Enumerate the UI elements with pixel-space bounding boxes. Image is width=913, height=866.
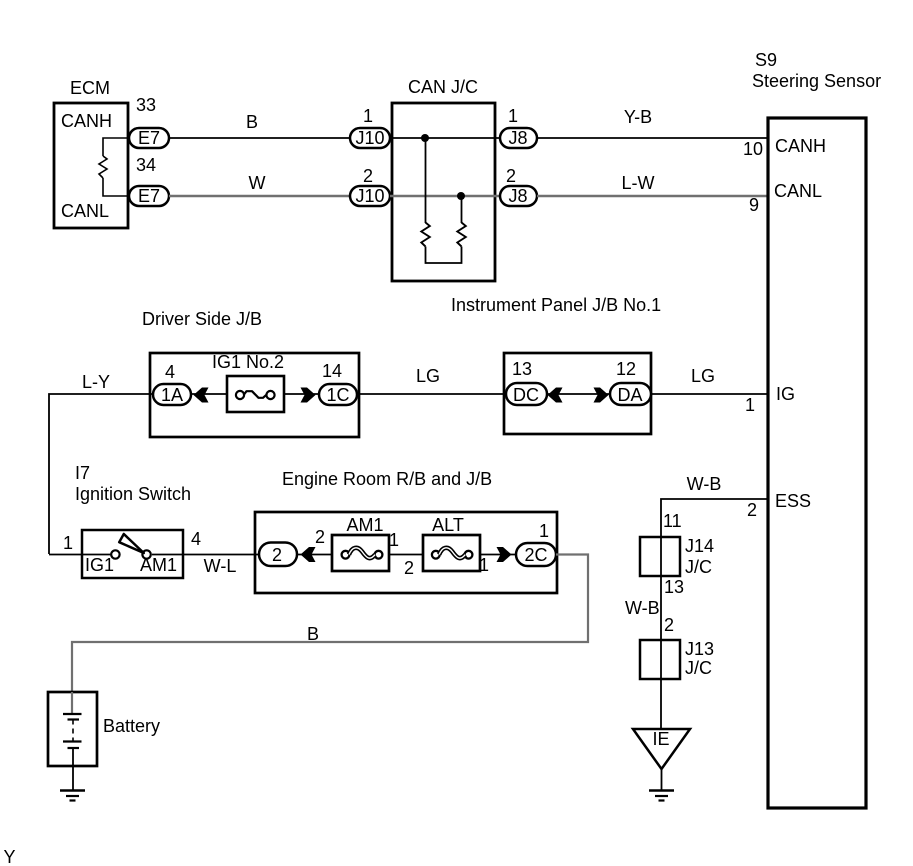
connector pin DC (506, 383, 547, 405)
svg-text:E7: E7 (138, 186, 160, 206)
svg-text:AM1: AM1 (346, 515, 383, 535)
connector pin 2C (516, 543, 556, 566)
internal wire fuse to 1C (284, 393, 319, 395)
svg-text:L-W: L-W (622, 173, 655, 193)
svg-text:S9: S9 (755, 50, 777, 70)
battery top stub gray (71, 692, 73, 713)
battery ground bar 2 (66, 795, 79, 797)
svg-text:1: 1 (363, 106, 373, 126)
battery plate short 2 (68, 747, 80, 749)
connector pin J10 (upper) (350, 128, 390, 148)
ignition switch I7 box (82, 530, 183, 578)
svg-text:9: 9 (749, 195, 759, 215)
svg-text:B: B (307, 624, 319, 644)
svg-text:J14: J14 (685, 536, 714, 556)
svg-text:12: 12 (616, 359, 636, 379)
svg-text:2: 2 (506, 166, 516, 186)
svg-text:2: 2 (747, 500, 757, 520)
steering sensor S9 box (768, 118, 866, 808)
svg-text:Y-B: Y-B (624, 107, 652, 127)
wire Y-B (J8 to steering sensor) (537, 137, 768, 139)
svg-text:13: 13 (664, 577, 684, 597)
svg-text:2: 2 (272, 545, 282, 565)
svg-text:4: 4 (191, 529, 201, 549)
ignition switch terminal AM1 circle (142, 550, 150, 558)
connector pin 2 (engine room) (259, 543, 297, 567)
ignition switch internal wire (82, 554, 112, 556)
svg-text:34: 34 (136, 155, 156, 175)
IE ground stub (661, 769, 663, 790)
junction block J13 box (640, 640, 680, 679)
svg-text:1: 1 (389, 530, 399, 550)
svg-text:1: 1 (479, 555, 489, 575)
svg-text:DC: DC (513, 385, 539, 405)
arrow right (into 1C) (301, 388, 316, 403)
internal wire 1A to fuse (191, 393, 227, 395)
fusible link ALT box (423, 535, 480, 571)
svg-text:J13: J13 (685, 639, 714, 659)
svg-text:ESS: ESS (775, 491, 811, 511)
svg-text:CANH: CANH (61, 111, 112, 131)
ignition switch lever (119, 534, 144, 553)
svg-text:Steering Sensor: Steering Sensor (752, 71, 881, 91)
svg-text:2: 2 (315, 527, 325, 547)
CAN J/C resistor 1 drop wire (425, 138, 427, 223)
svg-text:IG: IG (776, 384, 795, 404)
wire LG (DA to steering sensor IG) (651, 393, 768, 395)
CAN J/C internal wire CANH row (390, 137, 500, 139)
svg-text:33: 33 (136, 95, 156, 115)
junction block J14 box (640, 537, 680, 576)
svg-text:J/C: J/C (685, 557, 712, 577)
svg-text:CANL: CANL (61, 201, 109, 221)
svg-text:Instrument Panel J/B No.1: Instrument Panel J/B No.1 (451, 295, 661, 315)
svg-text:LG: LG (691, 366, 715, 386)
wire J13 to ground triangle (660, 640, 662, 729)
ECM terminating resistor (99, 156, 107, 178)
connector pin 1C (319, 384, 357, 405)
svg-text:J8: J8 (508, 128, 527, 148)
internal wire AM1 to ALT (389, 554, 423, 556)
svg-text:1C: 1C (326, 385, 349, 405)
svg-text:J10: J10 (355, 186, 384, 206)
svg-text:2: 2 (664, 615, 674, 635)
wire LG (1C to DC) (357, 393, 506, 395)
svg-text:ALT: ALT (432, 515, 464, 535)
connector pin J10 (lower) (350, 186, 390, 206)
ignition switch terminal IG1 circle (111, 550, 119, 558)
fuse IG1 No.2 symbol (236, 391, 244, 399)
battery ground bar 3 (70, 799, 76, 801)
svg-text:Engine Room R/B and J/B: Engine Room R/B and J/B (282, 469, 492, 489)
internal wire DC to DA (547, 393, 610, 395)
wire W-L (ignition to engine room) (183, 554, 261, 556)
battery plate long 2 (63, 740, 82, 742)
svg-text:L-Y: L-Y (82, 372, 110, 392)
connector pin DA (610, 383, 651, 405)
svg-text:Battery: Battery (103, 716, 160, 736)
svg-text:Driver Side J/B: Driver Side J/B (142, 309, 262, 329)
arrow right (into DA) (594, 388, 609, 403)
ECM internal terminating resistor wires (103, 138, 128, 156)
svg-text:CANH: CANH (775, 136, 826, 156)
Engine Room R/B and J/B box (255, 512, 557, 593)
svg-text:W-B: W-B (687, 474, 722, 494)
battery plate short 1 (68, 718, 80, 720)
battery plate long 1 (63, 713, 82, 715)
ECM box (54, 103, 128, 228)
ground triangle IE (633, 729, 690, 769)
svg-text:13: 13 (512, 359, 532, 379)
fusible link AM1 box (332, 535, 389, 571)
CAN J/C resistor 2 drop wire (461, 196, 463, 223)
wire W-B horizontal (to ESS) (661, 499, 768, 537)
svg-text:10: 10 (743, 139, 763, 159)
junction dot lower (457, 192, 465, 200)
IE ground bar 1 (649, 789, 674, 792)
svg-text:2: 2 (404, 558, 414, 578)
svg-text:11: 11 (663, 511, 682, 531)
battery box (48, 692, 97, 766)
svg-text:1A: 1A (161, 385, 183, 405)
wire into ignition switch (49, 554, 82, 556)
IE ground bar 3 (659, 799, 665, 801)
wire B loop (2C to battery) gray (72, 555, 588, 693)
svg-text:1: 1 (508, 106, 518, 126)
CAN J/C internal wire CANL row gray (390, 195, 500, 198)
Instrument Panel J/B No.1 box (504, 353, 651, 434)
battery ground bar 1 (60, 789, 85, 792)
svg-text:IG1: IG1 (85, 555, 114, 575)
svg-text:W: W (249, 173, 266, 193)
svg-text:E7: E7 (138, 128, 160, 148)
connector pin E7 (CANL) (129, 186, 169, 206)
svg-text:I7: I7 (75, 463, 90, 483)
arrow left (into 2) (301, 547, 316, 562)
CAN J/C box (392, 103, 495, 281)
battery bottom stub (72, 748, 74, 790)
arrow left (into DC) (548, 388, 563, 403)
junction dot upper (421, 134, 429, 142)
fusible link ALT symbol (432, 551, 440, 559)
svg-text:W-B: W-B (625, 598, 660, 618)
internal wire ALT to 2C (480, 554, 516, 556)
svg-text:B: B (246, 112, 258, 132)
svg-text:DA: DA (617, 385, 642, 405)
svg-text:CANL: CANL (774, 181, 822, 201)
CAN J/C resistor 2 (457, 223, 466, 247)
arrow left (into 1A) (194, 388, 209, 403)
svg-text:2: 2 (363, 166, 373, 186)
svg-text:AM1: AM1 (140, 555, 177, 575)
svg-text:IE: IE (652, 729, 669, 749)
CAN J/C resistor 1 (421, 223, 430, 247)
svg-text:ECM: ECM (70, 78, 110, 98)
svg-text:J10: J10 (355, 128, 384, 148)
svg-text:J/C: J/C (685, 658, 712, 678)
wire L-Y corner (vertical + horizontal into 1A) (49, 394, 153, 554)
CAN J/C resistor bottom connecting wire (426, 247, 462, 264)
svg-text:CAN J/C: CAN J/C (408, 77, 478, 97)
svg-text:1: 1 (745, 395, 755, 415)
fuse IG1 No.2 box (227, 376, 284, 412)
internal wire 2 to AM1 fuse (297, 554, 332, 556)
wire L-W (J8 to steering sensor) gray (537, 195, 768, 198)
svg-text:14: 14 (322, 361, 342, 381)
connector pin J8 (upper) (500, 128, 537, 148)
svg-text:IG1 No.2: IG1 No.2 (212, 352, 284, 372)
connector pin J8 (lower) (500, 186, 537, 206)
svg-text:1: 1 (539, 521, 549, 541)
connector pin 1A (153, 384, 191, 405)
svg-text:W-L: W-L (204, 556, 237, 576)
svg-text:Y: Y (4, 847, 16, 866)
wire through J14 (660, 537, 662, 640)
svg-text:4: 4 (165, 362, 175, 382)
svg-text:Ignition Switch: Ignition Switch (75, 484, 191, 504)
Driver Side J/B box (150, 353, 359, 437)
IE ground bar 2 (655, 795, 668, 797)
wire B (E7 to J10) (169, 137, 350, 139)
battery dashed link (72, 720, 74, 742)
svg-text:LG: LG (416, 366, 440, 386)
svg-text:2C: 2C (524, 545, 547, 565)
svg-text:1: 1 (63, 533, 73, 553)
connector pin E7 (CANH) (129, 128, 169, 148)
fusible link AM1 symbol (342, 551, 350, 559)
arrow right (into 2C) (497, 547, 512, 562)
wire W (E7 to J10) gray (169, 195, 350, 198)
svg-text:J8: J8 (508, 186, 527, 206)
